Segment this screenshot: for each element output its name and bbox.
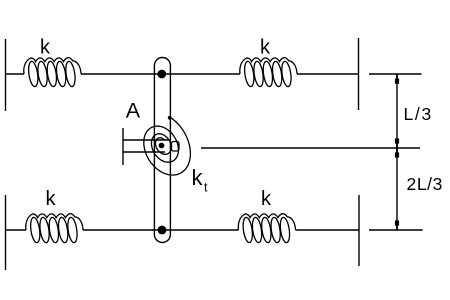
arrowhead up from middle xyxy=(395,152,399,157)
wire top middle (spring to bar to spring) xyxy=(81,73,240,75)
spring k top-left xyxy=(24,58,81,87)
torsional spring anchor dot xyxy=(168,116,172,120)
svg-text:2L/3: 2L/3 xyxy=(407,174,443,194)
wall right top xyxy=(358,38,360,110)
wire top-left (wall to spring) xyxy=(6,73,25,75)
wall right bottom xyxy=(358,195,360,266)
svg-text:k: k xyxy=(192,165,204,190)
extension line middle (pivot level) xyxy=(201,147,420,149)
spring k bottom-right xyxy=(238,214,295,243)
wall left bottom xyxy=(5,195,7,270)
pivot pin (dot) xyxy=(159,143,165,149)
wire bottom middle (spring to bar to spring) xyxy=(83,229,239,231)
pin joint top (dot) xyxy=(157,70,166,79)
pivot support prong lower xyxy=(123,151,165,153)
extension line top right xyxy=(369,73,422,75)
svg-text:t: t xyxy=(204,181,208,195)
pivot support post at A xyxy=(122,128,124,165)
arrowhead down to middle xyxy=(395,138,399,143)
torsional spring Kt spiral xyxy=(144,117,191,175)
pin joint bottom (dot) xyxy=(158,226,167,235)
spring k top-right xyxy=(240,58,297,87)
svg-text:k: k xyxy=(40,37,51,59)
lever bar (capsule) xyxy=(154,58,170,243)
arrowhead up at top xyxy=(395,79,399,84)
extension line bottom right xyxy=(369,229,423,231)
wire top-right (spring to wall) xyxy=(297,73,359,75)
torsional spring hook box xyxy=(172,142,180,152)
dimension line vertical xyxy=(396,74,398,230)
svg-text:A: A xyxy=(126,99,141,123)
spring k bottom-left xyxy=(26,214,83,243)
svg-text:k: k xyxy=(46,188,57,210)
wire bottom-right (spring to wall) xyxy=(296,229,360,231)
arrowhead down at bottom xyxy=(395,220,399,225)
svg-text:L/3: L/3 xyxy=(404,104,433,124)
wall left top xyxy=(5,39,7,111)
svg-text:k: k xyxy=(260,37,271,59)
svg-text:k: k xyxy=(261,188,272,210)
wire bottom-left (wall to spring) xyxy=(6,229,27,231)
pivot support prong upper xyxy=(123,139,170,141)
